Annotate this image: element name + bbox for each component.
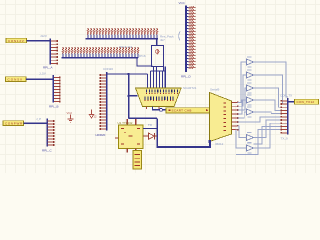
svg-text:CON_TX: CON_TX — [280, 93, 292, 97]
SCART bottom pin stubs — [146, 107, 147, 110]
connector CN2 (DB9, yellow trapezoid) — [210, 93, 232, 142]
resistor pack RP1 (vertical bus, 8 pins) — [50, 39, 58, 65]
resistor pack RP4 (horizontal row, 24 resistors, bus below) — [86, 28, 158, 39]
svg-text:RPL_D: RPL_D — [181, 74, 192, 78]
svg-text:VCC: VCC — [179, 1, 186, 5]
connector CN1 (SCART, yellow trapezoid) — [136, 88, 182, 107]
wire J1 to RP1 — [27, 40, 51, 42]
power port P1 — [67, 111, 74, 122]
pin stubs U1 top — [127, 119, 128, 125]
wire to J4 — [288, 99, 295, 102]
wire J2 to RP2 — [26, 78, 54, 80]
connector J3 (yellow plug, left bottom) — [3, 121, 24, 126]
svg-text:J_P: J_P — [36, 117, 41, 121]
svg-text:CON12V: CON12V — [8, 39, 25, 43]
svg-text:RPL_C: RPL_C — [42, 148, 53, 152]
svg-text:36012: 36012 — [215, 142, 224, 146]
svg-text:4k7: 4k7 — [160, 38, 165, 42]
header CON_TX (right pin column, 10 pins) — [280, 98, 288, 135]
IC U1 (yellow square) — [115, 119, 143, 152]
resistor pack RP6 (vertical, 21 resistors off VCC rail) — [186, 6, 196, 73]
svg-text:TX: TX — [148, 123, 152, 127]
header HDR20 (middle pin column, 19 pins) — [99, 72, 107, 131]
thick net TX232: U1 to DB9 — [129, 118, 210, 147]
connector J2 (yellow plug, left middle) — [6, 77, 27, 82]
connector J1 (yellow plug, left top) — [6, 38, 27, 43]
wire U1 TX out — [143, 127, 157, 129]
resistor pack RP3 (vertical bus, 9 pins) — [47, 119, 55, 147]
svg-text:RP16: RP16 — [138, 54, 146, 58]
svg-text:CON20: CON20 — [103, 67, 113, 71]
resistor pack RP5 (horizontal row, 26 resistors, bus below) — [62, 47, 139, 58]
svg-text:CON_TX12: CON_TX12 — [297, 100, 315, 104]
svg-text:12: 12 — [94, 115, 98, 119]
svg-text:RPL_B: RPL_B — [49, 104, 59, 108]
svg-text:RP15 2k2: RP15 2k2 — [119, 45, 133, 49]
connector J4 (yellow plug, right) — [295, 99, 319, 104]
label RP6 name — [160, 32, 180, 43]
CN2 pins — [232, 101, 239, 130]
node junction (open) — [160, 109, 163, 112]
svg-text:RPL_A: RPL_A — [43, 65, 53, 69]
wire J3 to RP3 — [24, 122, 48, 124]
svg-text:HDR20: HDR20 — [96, 133, 106, 137]
diode D1 — [143, 133, 157, 139]
svg-text:CONPWR: CONPWR — [5, 122, 23, 126]
thin nets DB9 to inverters to CON_TX — [236, 62, 288, 155]
crystal Y1 (vertical yellow) — [133, 151, 142, 170]
wire SCART pin to fuse — [153, 107, 167, 110]
svg-text:U1 TTL232: U1 TTL232 — [118, 121, 133, 125]
fuse F1 (inline yellow) — [166, 108, 211, 113]
resistor pack RP2 (vertical bus, 9 pins) — [53, 75, 61, 103]
svg-text:Serial9: Serial9 — [210, 87, 220, 91]
wire harness into SCART top — [107, 40, 166, 119]
box D5 (clamp network) — [152, 46, 164, 67]
inverters U2A-U2G — [247, 57, 254, 68]
svg-text:SCART21: SCART21 — [183, 86, 197, 90]
svg-text:VC2: VC2 — [67, 111, 73, 115]
svg-text:J_5V: J_5V — [39, 72, 46, 76]
svg-text:J12V: J12V — [40, 34, 47, 38]
svg-text:CON5V: CON5V — [8, 78, 24, 82]
svg-text:SCART CAB: SCART CAB — [172, 109, 192, 113]
svg-text:TX_9: TX_9 — [281, 137, 289, 141]
power port P2 — [89, 110, 97, 119]
